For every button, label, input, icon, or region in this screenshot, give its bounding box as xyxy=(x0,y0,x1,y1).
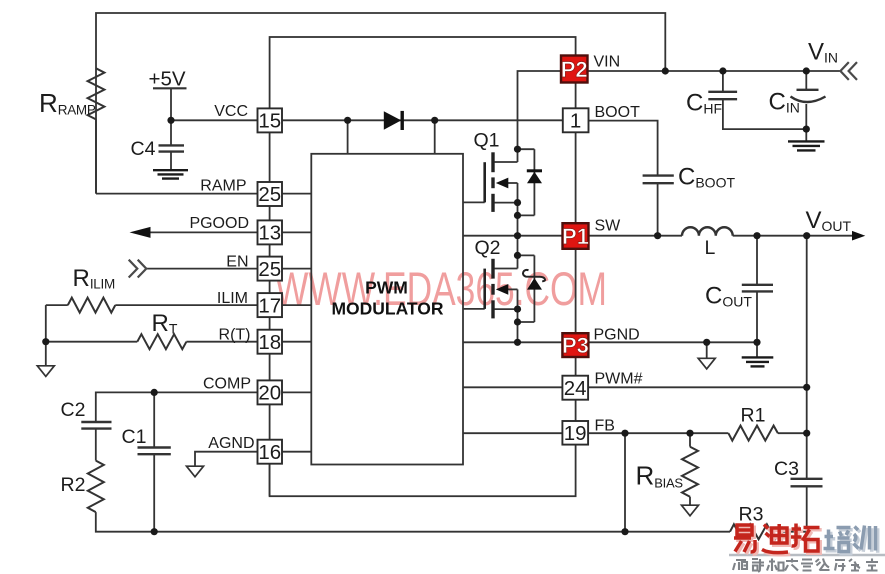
wire FB drop to bottom rail xyxy=(624,433,626,532)
node PGND Q chain xyxy=(514,339,521,346)
node VCC/C4 xyxy=(167,117,174,124)
svg-text:RAMP: RAMP xyxy=(200,178,246,195)
pin name labels right column xyxy=(594,54,643,435)
wire PWM# line box to pin24 xyxy=(463,386,562,388)
svg-text:15: 15 xyxy=(258,110,281,133)
svg-text:SW: SW xyxy=(595,218,622,235)
node CBOOT SW xyxy=(654,232,661,239)
svg-text:R3: R3 xyxy=(739,504,764,526)
wire diode cathode drop to PWM box xyxy=(434,120,436,154)
wire ILIM gnd stem xyxy=(45,342,47,366)
capacitor C_IN polarized xyxy=(791,90,826,102)
node VIN CIN xyxy=(803,67,810,74)
pin 20 box xyxy=(258,380,283,404)
svg-text:25: 25 xyxy=(258,183,281,206)
wire VCC drop to PWM box xyxy=(347,120,349,154)
logo underline xyxy=(729,554,885,556)
VIN input chevron xyxy=(840,62,857,80)
svg-text:VIN: VIN xyxy=(594,54,621,71)
wire AGND line xyxy=(195,452,258,466)
logo tagline glyphs xyxy=(733,559,878,572)
wire R_RAMP bottom lead xyxy=(95,119,97,193)
node ILIM RT xyxy=(42,338,49,345)
node rail FB xyxy=(621,528,628,535)
pin 13 box xyxy=(258,220,283,244)
wire PGND line box to P3 xyxy=(463,341,562,343)
pin 1 box xyxy=(563,108,589,132)
inner PWM modulator box xyxy=(311,154,463,465)
svg-text:+5V: +5V xyxy=(149,68,186,91)
svg-text:Q2: Q2 xyxy=(475,237,501,259)
svg-text:19: 19 xyxy=(564,422,587,445)
node FB left xyxy=(621,430,628,437)
svg-text:16: 16 xyxy=(258,441,281,464)
label PWM MODULATOR xyxy=(331,277,443,318)
transistor Q2 xyxy=(485,259,518,319)
node PGND gnd2 xyxy=(753,339,760,346)
wire EN pin to PWM box xyxy=(282,268,311,270)
outer IC rectangle xyxy=(270,37,576,496)
wire PGOOD pin to PWM box xyxy=(282,231,311,233)
wire R2 bottom to rail xyxy=(96,512,625,532)
capacitor C_HF xyxy=(708,92,737,99)
wire inductor to VOUT arrow xyxy=(733,235,853,237)
svg-text:1: 1 xyxy=(570,110,581,133)
svg-text:VCC: VCC xyxy=(214,103,248,120)
svg-text:24: 24 xyxy=(564,377,587,400)
pad P2 xyxy=(561,56,588,83)
wire C1 top stem xyxy=(153,392,155,447)
VOUT arrow xyxy=(852,231,865,241)
capacitor C4 xyxy=(159,145,185,151)
svg-text:C3: C3 xyxy=(774,458,799,480)
wire BOOT right to CBOOT xyxy=(589,121,658,175)
EN input chevron xyxy=(129,260,147,278)
wire Q1 gate lead xyxy=(463,201,485,203)
node VIN top rail xyxy=(662,67,669,74)
wire ILIM line right segment xyxy=(115,304,257,306)
wire VCC pin15 to BOOT pin1 internal line xyxy=(282,119,563,121)
node Q1 source xyxy=(514,199,521,206)
node PGND gnd1 xyxy=(703,339,710,346)
svg-text:L: L xyxy=(705,237,716,259)
svg-text:PGOOD: PGOOD xyxy=(189,215,249,232)
svg-text:C1: C1 xyxy=(122,426,147,448)
svg-text:20: 20 xyxy=(258,382,281,405)
wire COUT bottom stem xyxy=(756,292,758,343)
wire COMP pin to PWM box xyxy=(282,391,311,393)
logo char shadow layer xyxy=(736,526,822,555)
ground C_OUT earth xyxy=(742,357,774,366)
wire CIN bottom stem xyxy=(805,104,807,129)
node Q1 drain xyxy=(514,146,521,153)
svg-text:COMP: COMP xyxy=(203,376,251,393)
ground C_IN earth xyxy=(788,141,825,150)
wire Q2 bodydiode top link xyxy=(518,254,535,256)
node diode cathode xyxy=(431,117,438,124)
node COMP C1 xyxy=(151,389,158,396)
wire AGND pin to PWM box xyxy=(282,451,311,453)
svg-text:18: 18 xyxy=(258,331,281,354)
logo char 训 xyxy=(854,526,876,551)
pad P3 xyxy=(562,333,589,358)
wire PGND line P3 right xyxy=(589,341,758,343)
resistor R_BIAS xyxy=(682,447,698,497)
svg-text:P3: P3 xyxy=(562,333,589,358)
svg-text:C2: C2 xyxy=(61,399,86,421)
wire Q2 arrow to source and down to PGND xyxy=(517,289,519,342)
logo char 拓 xyxy=(791,524,820,552)
wire C4 stem xyxy=(170,120,172,145)
svg-text:PGND: PGND xyxy=(594,327,640,344)
svg-text:ILIM: ILIM xyxy=(217,290,248,307)
wire SW P1 to inductor xyxy=(589,235,683,237)
svg-text:PWM#: PWM# xyxy=(595,371,643,388)
node Q2 diode bottom xyxy=(514,318,521,325)
node VOUT branch xyxy=(803,232,810,239)
wire Q1 arrow to source vertical xyxy=(517,183,519,236)
pin boxes left xyxy=(258,108,589,463)
svg-text:MODULATOR: MODULATOR xyxy=(331,298,443,318)
node Q2 source xyxy=(514,306,521,313)
wire R3 right to branch xyxy=(780,487,807,532)
node FB RBIAS xyxy=(686,430,693,437)
wire FB line box to pin19 xyxy=(463,432,562,434)
pin 25 RAMP box xyxy=(258,182,283,206)
wire VIN line P2 to VIN connector xyxy=(588,70,841,72)
svg-text:25: 25 xyxy=(258,258,281,281)
capacitor C_BOOT xyxy=(643,176,674,184)
logo char 易 xyxy=(734,525,755,552)
ground PGND open triangle xyxy=(698,358,715,369)
wire pin16 down to IC bottom xyxy=(269,464,271,496)
svg-text:EN: EN xyxy=(226,253,248,270)
wire RBIAS top stem xyxy=(689,433,691,447)
svg-text:17: 17 xyxy=(258,294,281,317)
svg-text:PWM: PWM xyxy=(365,277,408,297)
wire CHF stem xyxy=(722,71,724,92)
wire C4 to ground xyxy=(170,152,172,171)
resistor R3 xyxy=(730,524,780,539)
wire Q2 bodydiode bottom link xyxy=(518,321,535,323)
node R1 branch xyxy=(803,430,810,437)
wire bottom rail to R3 xyxy=(625,531,730,533)
wire ILIM left corner down xyxy=(45,305,47,342)
ground ILIM open triangle xyxy=(37,366,54,377)
wire +5V stem xyxy=(170,88,172,120)
capacitor C_OUT xyxy=(742,285,773,292)
resistor R_RAMP xyxy=(88,68,105,119)
resistor R2 xyxy=(88,461,104,512)
svg-text:BOOT: BOOT xyxy=(595,104,641,121)
node COUT SW xyxy=(753,232,760,239)
wire RT line right segment xyxy=(186,341,257,343)
svg-text:Q1: Q1 xyxy=(474,130,500,152)
PGOOD arrow xyxy=(130,227,151,238)
diode D bootstrap xyxy=(384,111,402,130)
Q1 body diode xyxy=(527,171,542,183)
wire Q1 bodydiode top link xyxy=(518,148,535,150)
wire Q1 drain vertical xyxy=(517,149,519,162)
pin 16 box xyxy=(258,440,283,464)
wire Q2 bodydiode vertical xyxy=(533,255,535,322)
svg-text:P2: P2 xyxy=(561,57,588,82)
node CIN bottom xyxy=(803,126,810,133)
wire RAMP line to pin 25 xyxy=(96,193,258,195)
wire PGND open gnd stem xyxy=(706,342,708,358)
logo char 培 xyxy=(824,528,851,552)
wire SW line box to P1 xyxy=(463,235,563,237)
wire Q1 bodydiode vertical xyxy=(533,149,535,215)
wire RBIAS bottom stem xyxy=(689,497,691,505)
wire C1 bottom stem xyxy=(153,455,155,532)
wire Q2 drain vertical xyxy=(517,236,519,269)
wire PWM# to branch xyxy=(589,386,807,388)
wire COUT gnd stem xyxy=(756,342,758,357)
ground RBIAS open triangle xyxy=(682,505,699,516)
wire ILIM line left segment xyxy=(46,304,68,306)
node rail C1 xyxy=(151,528,158,535)
pin 15 box xyxy=(258,108,283,132)
wire RT line left segment xyxy=(46,341,138,343)
svg-text:AGND: AGND xyxy=(208,435,254,452)
logo char 迪 xyxy=(762,524,788,553)
svg-text:P1: P1 xyxy=(562,224,589,249)
svg-text:C4: C4 xyxy=(131,138,156,160)
node Q2 drain xyxy=(514,252,521,259)
wire VIN P2 left to Q1 drain xyxy=(518,71,562,149)
wire C2-R2 mid xyxy=(95,429,97,461)
svg-text:R2: R2 xyxy=(61,474,86,496)
resistor R_T xyxy=(137,334,186,349)
wire RT pin to PWM box xyxy=(282,341,311,343)
node PWM# branch xyxy=(803,384,810,391)
resistor R1 xyxy=(728,426,778,441)
node diode anode xyxy=(344,117,351,124)
svg-text:FB: FB xyxy=(595,418,615,435)
node VIN CHF xyxy=(719,67,726,74)
pin name labels left column xyxy=(189,103,254,452)
inductor L xyxy=(682,227,733,235)
wire EN line xyxy=(146,268,258,270)
wire Q2 gate lead xyxy=(463,308,485,310)
wire COMP line xyxy=(96,392,258,421)
svg-text:R(T): R(T) xyxy=(219,327,251,344)
pin 25 EN box xyxy=(258,257,283,281)
wire RAMP pin to PWM box xyxy=(282,193,311,195)
pin 18 box xyxy=(258,330,283,354)
wire VCC line xyxy=(171,119,258,121)
resistor R_ILIM xyxy=(68,298,116,313)
wire ILIM pin to PWM box xyxy=(282,304,311,306)
ground AGND open triangle xyxy=(187,466,204,477)
wire R1 right to branch xyxy=(778,432,807,434)
pin 24 box xyxy=(562,376,588,400)
pad P1 xyxy=(562,223,589,249)
pin 17 box xyxy=(258,293,283,317)
transistor Q1 xyxy=(485,152,518,212)
svg-text:R1: R1 xyxy=(741,404,766,426)
Q2 body diode schottky xyxy=(523,270,545,290)
wire CIN gnd stem xyxy=(805,129,807,141)
wire VOUT branch vertical xyxy=(806,236,808,479)
node SW Q chain xyxy=(514,232,521,239)
wire FB line right of pin19 xyxy=(587,432,729,434)
svg-text:13: 13 xyxy=(258,222,281,245)
capacitor C2 xyxy=(81,422,111,429)
wire CBOOT bottom to SW xyxy=(657,184,659,236)
wire top rail from R_RAMP to VIN line xyxy=(96,13,665,194)
ground C4 earth xyxy=(153,170,188,178)
wire CIN top stem xyxy=(805,71,807,90)
capacitor C1 xyxy=(138,448,171,455)
wire COUT top stem xyxy=(756,236,758,285)
wire CHF bottom to CIN bottom xyxy=(723,100,806,130)
pin 19 box xyxy=(562,421,588,445)
wire Q1 bodydiode bottom link xyxy=(518,214,535,216)
node Q1 diode bottom xyxy=(514,212,521,219)
wire PGOOD line xyxy=(148,231,258,233)
+5V bar xyxy=(153,87,187,89)
pin numbers xyxy=(258,110,586,464)
capacitor C3 xyxy=(791,479,823,487)
